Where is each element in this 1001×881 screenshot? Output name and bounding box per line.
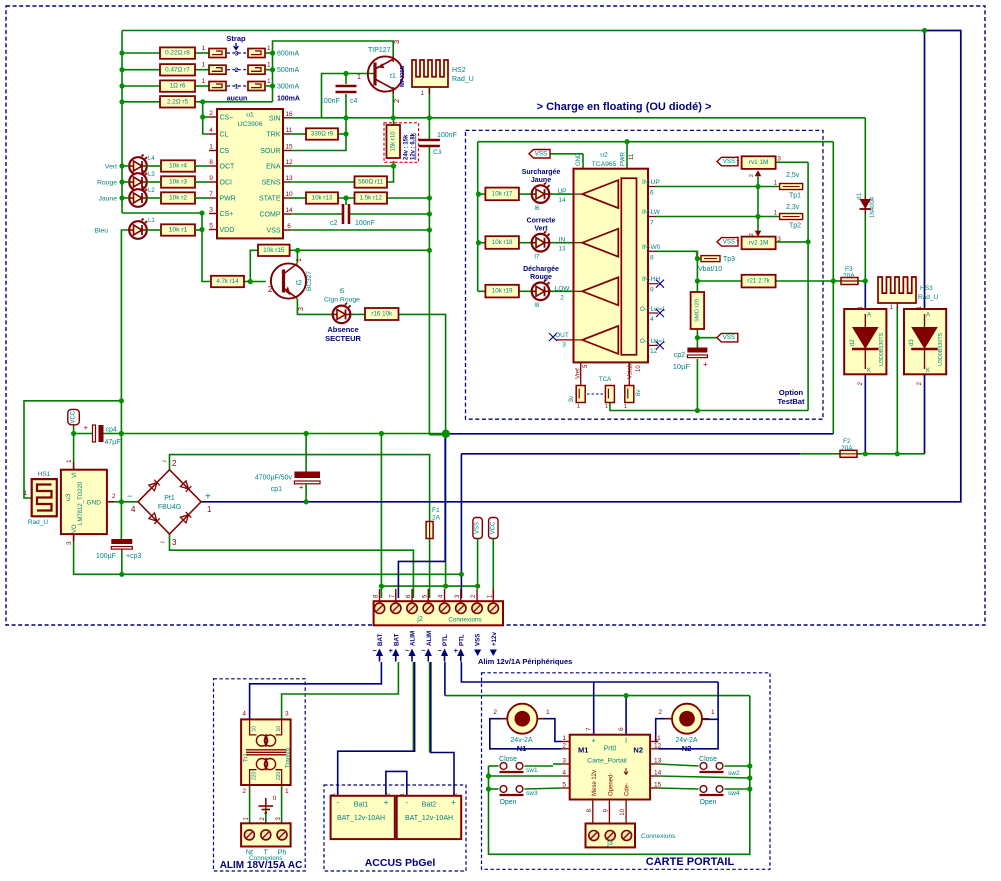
svg-text:1: 1 bbox=[605, 404, 608, 410]
resistor r11 560 ohm bbox=[355, 176, 388, 187]
svg-text:+: + bbox=[299, 483, 304, 492]
svg-text:Open: Open bbox=[499, 799, 516, 806]
svg-text:3: 3 bbox=[392, 40, 401, 44]
svg-text:PTL: PTL bbox=[458, 634, 465, 646]
svg-text:4: 4 bbox=[562, 770, 566, 777]
j2 screw terminal pin 4 bbox=[439, 603, 449, 613]
resistor r20 SMD vertical bbox=[691, 292, 705, 329]
svg-text:~: ~ bbox=[421, 648, 425, 655]
wire: TCA interior left vertical bbox=[477, 142, 479, 292]
wire: l5 to r16 bbox=[351, 313, 366, 315]
svg-text:Carte_Portail: Carte_Portail bbox=[587, 758, 627, 765]
svg-text:U3D0B530TS: U3D0B530TS bbox=[879, 332, 885, 366]
svg-text:3: 3 bbox=[285, 711, 289, 718]
svg-text:l7: l7 bbox=[534, 254, 539, 261]
svg-text:500mA: 500mA bbox=[277, 67, 300, 74]
svg-text:t2: t2 bbox=[296, 280, 302, 287]
svg-text:15: 15 bbox=[654, 782, 662, 789]
svg-text:14: 14 bbox=[285, 207, 293, 214]
svg-text:5: 5 bbox=[209, 223, 213, 230]
svg-text:330Ω r9: 330Ω r9 bbox=[311, 131, 334, 138]
svg-text:+cp3: +cp3 bbox=[126, 553, 141, 560]
svg-text:Prt0: Prt0 bbox=[604, 746, 617, 753]
svg-text:ACCUS PbGel: ACCUS PbGel bbox=[365, 857, 436, 869]
svg-text:7: 7 bbox=[209, 191, 213, 198]
wire: sw3 row bbox=[489, 788, 499, 790]
svg-text:cp1: cp1 bbox=[271, 486, 282, 493]
svg-text:L3: L3 bbox=[148, 172, 155, 178]
svg-text:1: 1 bbox=[267, 78, 271, 85]
svg-text:ALIM 18V/15A AC: ALIM 18V/15A AC bbox=[220, 860, 303, 871]
u2 inner comparator block bbox=[621, 178, 636, 355]
wire: rail to led anodes bbox=[122, 165, 129, 167]
wire: j2 pin6 column down to batteries bbox=[412, 662, 414, 751]
svg-text:VSS: VSS bbox=[475, 634, 482, 646]
resistor r8 0.22 ohm bbox=[160, 47, 195, 58]
svg-text:rv2 1M: rv2 1M bbox=[749, 239, 769, 246]
svg-text:24v-2A: 24v-2A bbox=[675, 737, 698, 744]
vcc vertical flag above j2 bbox=[489, 518, 498, 539]
u2 right pin stubs bbox=[648, 186, 656, 188]
wire: carte portail switch common loop bbox=[489, 696, 750, 855]
wire: r5 row to strap bus bbox=[122, 101, 160, 103]
wire: t1 collector stub bbox=[392, 91, 394, 118]
diode module d3 bbox=[904, 309, 946, 374]
svg-text:4: 4 bbox=[209, 127, 213, 134]
heatsink HS2 bbox=[412, 60, 448, 87]
resistor r19 bbox=[485, 285, 519, 298]
svg-text:Vbat/10: Vbat/10 bbox=[698, 266, 722, 273]
led l6 bbox=[532, 183, 550, 203]
main schematic dashed border frame bbox=[6, 6, 985, 625]
svg-text:4: 4 bbox=[650, 316, 654, 323]
led l8 bbox=[532, 280, 550, 300]
svg-text:9: 9 bbox=[209, 175, 213, 182]
svg-text:4700µF/50v: 4700µF/50v bbox=[255, 475, 293, 482]
wire: trafo bottom pins to j1 bbox=[249, 785, 251, 823]
svg-text:j2: j2 bbox=[416, 616, 423, 623]
big junction dot at ground rail crossing bbox=[442, 430, 450, 438]
svg-text:C3: C3 bbox=[433, 149, 442, 156]
resistor r15 10k bbox=[258, 245, 290, 256]
svg-text:+: + bbox=[592, 736, 597, 745]
wire: HS3 pin drop bbox=[896, 307, 898, 454]
wire: l1 row bbox=[147, 229, 161, 231]
vss flag at u2 gnd bbox=[529, 150, 550, 159]
svg-text:cp4: cp4 bbox=[106, 427, 117, 434]
svg-text:STATE: STATE bbox=[259, 196, 281, 203]
svg-text:10k r2: 10k r2 bbox=[169, 195, 187, 202]
wire: r19 row bbox=[478, 290, 486, 292]
wire: t2 collector stub bbox=[296, 250, 298, 263]
strap jumper row3 left bbox=[209, 49, 226, 58]
bus wire: BAT+ riser to j2 pin7 bbox=[398, 434, 445, 598]
resistor r9 330 ohm bbox=[306, 128, 338, 139]
led l2 Jaune bbox=[129, 187, 147, 207]
svg-text:Vert: Vert bbox=[534, 226, 548, 233]
svg-text:> Charge en floating (OU diodé: > Charge en floating (OU diodé) > bbox=[537, 101, 712, 113]
svg-text:Jaune: Jaune bbox=[98, 196, 117, 203]
svg-text:Bat1: Bat1 bbox=[354, 802, 369, 809]
svg-text:u3: u3 bbox=[65, 493, 72, 501]
svg-text:~: ~ bbox=[160, 538, 165, 547]
svg-text:10µF: 10µF bbox=[673, 362, 691, 371]
bus wire: N2 left to prt0 pin11 bbox=[656, 719, 672, 742]
potentiometer rv2 1M bbox=[742, 237, 776, 250]
svg-text:0.22Ω r8: 0.22Ω r8 bbox=[165, 50, 190, 57]
led l5 Clgn Rouge bbox=[333, 303, 351, 323]
svg-text:1: 1 bbox=[711, 709, 715, 716]
switch sw4 Open bbox=[700, 786, 724, 795]
svg-text:Absence: Absence bbox=[327, 325, 358, 334]
wire: u2 pin6 row to Tp1 bbox=[656, 186, 780, 188]
j2 screw terminal pin 6 bbox=[407, 603, 417, 613]
svg-text:3: 3 bbox=[235, 50, 239, 57]
svg-text:4: 4 bbox=[131, 505, 136, 514]
switch sw3 Open bbox=[500, 786, 524, 795]
wire: u2 pin8 IN-W0 to measure column bbox=[656, 251, 697, 292]
wire: SENS row to r11 bbox=[291, 181, 355, 183]
heatsink HS3 bbox=[878, 277, 916, 303]
svg-text:1: 1 bbox=[917, 305, 923, 309]
svg-text:10k r17: 10k r17 bbox=[492, 190, 513, 197]
svg-text:sw1: sw1 bbox=[526, 767, 538, 774]
svg-text:10k r19: 10k r19 bbox=[492, 288, 513, 295]
wire: prt0 pin4 row bbox=[489, 775, 562, 777]
resistor r3 bbox=[161, 176, 195, 187]
svg-text:100nF: 100nF bbox=[437, 132, 457, 139]
svg-text:O-+Lw=1: O-+Lw=1 bbox=[640, 306, 666, 313]
bus wire: j2 pin5 to Bat2 plus bbox=[431, 662, 454, 796]
wire: r17 row bbox=[478, 193, 486, 195]
bus wire: PTL+ column to j2 pin3 bbox=[460, 454, 462, 598]
svg-text:Tp2: Tp2 bbox=[789, 223, 801, 230]
svg-text:r16 10k: r16 10k bbox=[371, 311, 393, 318]
svg-text:OCI: OCI bbox=[220, 180, 233, 187]
j2 arrows up for wires bbox=[376, 649, 383, 662]
svg-text:−: − bbox=[373, 648, 377, 655]
svg-text:47µF: 47µF bbox=[105, 439, 121, 446]
wire: u2 pin7 row to Tp2 bbox=[656, 216, 780, 218]
wire: TestBat bottom rail y=410.5 bbox=[609, 410, 808, 412]
svg-text:1: 1 bbox=[421, 91, 425, 97]
j2 screw terminal pin 5 bbox=[423, 603, 433, 613]
module Prt0 Carte_Portail bbox=[570, 735, 650, 800]
wire: VSS pin row bbox=[291, 229, 429, 231]
svg-text:Pt1: Pt1 bbox=[164, 495, 175, 502]
strap jumper row1 left bbox=[209, 82, 226, 91]
svg-text:PWR: PWR bbox=[220, 196, 236, 203]
j2 screw terminal pin 2 bbox=[472, 603, 482, 613]
svg-text:TCA965: TCA965 bbox=[592, 161, 617, 168]
bus wire: j2 pin6 to Bat1 minus bbox=[338, 662, 415, 796]
svg-text:Tr1: Tr1 bbox=[244, 753, 250, 762]
svg-text:L1: L1 bbox=[148, 218, 155, 224]
svg-text:5: 5 bbox=[583, 364, 589, 368]
svg-text:Open: Open bbox=[699, 799, 716, 806]
strap jumper row2 right bbox=[248, 65, 265, 74]
svg-text:11: 11 bbox=[654, 735, 661, 742]
wire: TRK/SOUR link vertical bbox=[291, 118, 346, 151]
bus wire: d3 anode column bbox=[924, 31, 926, 310]
svg-text:rv1 1M: rv1 1M bbox=[749, 159, 769, 166]
svg-text:L2: L2 bbox=[148, 188, 155, 194]
svg-text:~: ~ bbox=[405, 648, 409, 655]
svg-text:ENA: ENA bbox=[266, 164, 281, 171]
resistor r10 15k vertical bbox=[387, 125, 401, 158]
svg-text:16: 16 bbox=[285, 111, 293, 118]
svg-text:d1: d1 bbox=[857, 192, 863, 199]
switch sw1 Close bbox=[500, 763, 524, 772]
svg-text:1: 1 bbox=[546, 709, 550, 716]
svg-text:13: 13 bbox=[285, 175, 293, 182]
svg-text:8: 8 bbox=[374, 594, 380, 598]
svg-text:Rouge: Rouge bbox=[530, 274, 552, 281]
svg-text:2: 2 bbox=[235, 67, 239, 74]
svg-text:2: 2 bbox=[749, 233, 755, 236]
svg-text:1Ω r6: 1Ω r6 bbox=[170, 83, 186, 90]
svg-text:VCC: VCC bbox=[490, 521, 496, 534]
svg-text:d3: d3 bbox=[909, 339, 915, 346]
svg-text:Strap: Strap bbox=[226, 34, 246, 43]
wire: earth stub bbox=[265, 798, 267, 823]
potentiometer rv1 1M bbox=[742, 156, 776, 169]
svg-text:Alim 12v/1A Périphériques: Alim 12v/1A Périphériques bbox=[478, 657, 572, 666]
svg-text:PWR: PWR bbox=[621, 151, 627, 166]
svg-text:1N4004: 1N4004 bbox=[870, 196, 876, 218]
svg-text:8: 8 bbox=[650, 255, 654, 262]
svg-text:l5: l5 bbox=[339, 288, 344, 295]
svg-text:1: 1 bbox=[736, 237, 740, 243]
resistor r14 4.7k bbox=[211, 276, 244, 287]
svg-text:N2: N2 bbox=[633, 746, 643, 755]
svg-text:11: 11 bbox=[629, 153, 635, 160]
svg-text:aucun: aucun bbox=[227, 96, 248, 103]
svg-text:COMP: COMP bbox=[260, 212, 281, 219]
bus wire: j2 pin8 to trafo pin4 bbox=[250, 662, 382, 719]
wire: sw4 row bbox=[658, 788, 698, 789]
battery Bat2 BAT_12v-10AH bbox=[397, 796, 462, 839]
wire: cp4 left link bbox=[74, 433, 94, 435]
resistor r13 10k bbox=[306, 192, 338, 203]
svg-text:LM7812_TO220: LM7812_TO220 bbox=[78, 481, 84, 525]
svg-text:Close: Close bbox=[699, 756, 717, 763]
svg-text:3: 3 bbox=[172, 538, 177, 547]
svg-text:BAT: BAT bbox=[377, 634, 384, 646]
svg-text:20A: 20A bbox=[843, 273, 855, 280]
diode d1 1N4004 bbox=[860, 196, 872, 214]
r10 selection red dashed box bbox=[384, 123, 419, 163]
svg-text:3: 3 bbox=[209, 207, 213, 214]
j2 screw terminal pin 7 bbox=[391, 603, 401, 613]
svg-text:2: 2 bbox=[260, 817, 266, 821]
resistor r1 bbox=[161, 224, 195, 235]
svg-text:IN-UP: IN-UP bbox=[642, 179, 660, 186]
svg-text:HS1: HS1 bbox=[38, 471, 51, 478]
svg-text:Rad_U: Rad_U bbox=[452, 76, 474, 83]
svg-text:VSS: VSS bbox=[266, 228, 280, 235]
svg-text:6: 6 bbox=[650, 190, 654, 197]
svg-text:+: + bbox=[454, 648, 458, 655]
svg-text:14: 14 bbox=[654, 770, 662, 777]
svg-text:2: 2 bbox=[242, 788, 246, 795]
svg-text:sw4: sw4 bbox=[728, 790, 740, 797]
bus wire: j2 pin4 PTL- drop bbox=[444, 662, 446, 696]
wire: strap row r8 bbox=[122, 52, 160, 54]
svg-text:1: 1 bbox=[66, 459, 73, 463]
svg-text:100nF: 100nF bbox=[320, 98, 340, 105]
Option TestBat dashed box bbox=[466, 130, 824, 419]
relay N2 24v-2A bbox=[665, 704, 709, 734]
svg-text:10: 10 bbox=[285, 191, 293, 198]
svg-text:220: 220 bbox=[252, 771, 258, 780]
svg-text:13: 13 bbox=[654, 758, 662, 765]
svg-text:2: 2 bbox=[658, 709, 662, 716]
resistor r5 2.2 ohm bbox=[160, 96, 195, 107]
wire: ENA row bbox=[291, 165, 394, 167]
svg-text:5: 5 bbox=[562, 782, 566, 789]
svg-text:UP: UP bbox=[557, 188, 566, 195]
svg-text:15k r10: 15k r10 bbox=[390, 131, 396, 152]
svg-text:2: 2 bbox=[917, 381, 923, 385]
svg-text:Connexions: Connexions bbox=[641, 833, 676, 840]
wire: c2 junction stub bbox=[345, 198, 347, 205]
svg-text:l6: l6 bbox=[534, 205, 539, 212]
svg-text:HS2: HS2 bbox=[452, 67, 466, 74]
svg-text:1: 1 bbox=[207, 505, 212, 514]
bus wire: N2 right feed bbox=[701, 682, 718, 719]
svg-text:1: 1 bbox=[736, 157, 740, 163]
wire: COMP row with c2 bbox=[291, 213, 342, 215]
svg-text:CS: CS bbox=[220, 148, 230, 155]
wire: ENA to r11 bbox=[387, 166, 394, 182]
wire: STATE row r13 r12 bbox=[291, 197, 306, 199]
svg-text:1: 1 bbox=[562, 735, 566, 742]
svg-text:VSS: VSS bbox=[475, 522, 481, 534]
svg-text:10k r3: 10k r3 bbox=[169, 179, 187, 186]
wire: pin8 column x=381.4 bbox=[380, 434, 382, 599]
svg-text:1: 1 bbox=[577, 404, 580, 410]
svg-text:-: - bbox=[336, 798, 339, 807]
svg-text:j3: j3 bbox=[606, 840, 613, 847]
wire: r16 right corner down x=445.6 bbox=[399, 314, 446, 586]
bus wire: d2 cathode stub bbox=[864, 374, 866, 454]
wire: strap row r6 bbox=[122, 85, 160, 87]
fuse F3 20A bbox=[841, 278, 858, 285]
bus wire: N1 left to prt0 pin2 bbox=[490, 719, 562, 749]
svg-text:BAT: BAT bbox=[393, 634, 400, 646]
svg-text:M1: M1 bbox=[578, 746, 588, 755]
svg-text:1: 1 bbox=[243, 817, 249, 821]
led l4 Vert bbox=[129, 155, 147, 175]
svg-text:MPJ05B: MPJ05B bbox=[400, 66, 406, 87]
switch sw2 Close bbox=[700, 763, 724, 772]
wire: corner of x=429.4 into VSS rail bbox=[429, 434, 445, 436]
wire: bridge AC2 to fuse F1 to j2 pin5 bbox=[170, 455, 430, 521]
connector j3 bbox=[586, 824, 636, 848]
svg-text:12: 12 bbox=[285, 159, 293, 166]
wire: strap row r7 bbox=[122, 69, 160, 71]
svg-text:2: 2 bbox=[749, 174, 755, 177]
wire: VSS flag link at measure column bbox=[697, 337, 716, 339]
fuse F2 20A bbox=[840, 450, 857, 457]
svg-text:SOUR: SOUR bbox=[260, 148, 280, 155]
svg-text:24v : 15k: 24v : 15k bbox=[404, 134, 410, 160]
bus wire: d3 cathode to F2 row bbox=[924, 374, 926, 454]
svg-text:Surchargée: Surchargée bbox=[522, 169, 561, 176]
vss flag rv2 bbox=[717, 238, 738, 247]
wire: r14 to base junction bbox=[244, 281, 250, 283]
svg-text:L4: L4 bbox=[148, 156, 155, 162]
svg-text:10: 10 bbox=[636, 365, 642, 372]
hs3 pin stub bbox=[896, 303, 898, 308]
svg-text:1: 1 bbox=[23, 490, 27, 497]
svg-text:3: 3 bbox=[66, 541, 73, 545]
wire: cp4 right link bbox=[102, 433, 121, 435]
wire: strap bus vertical and emitter feed bbox=[273, 41, 394, 102]
svg-text:N2: N2 bbox=[682, 744, 692, 753]
svg-text:Rad_U: Rad_U bbox=[28, 519, 49, 526]
svg-text:TCA: TCA bbox=[599, 376, 612, 383]
svg-text:1: 1 bbox=[890, 305, 894, 311]
svg-text:+: + bbox=[84, 423, 89, 432]
bus wire: N2 to prt0 pin12 bbox=[658, 719, 718, 749]
strap jumper row2 left bbox=[209, 65, 226, 74]
resistor r16 10k bbox=[365, 308, 399, 320]
wire: u2 GND pin to VSS flag bbox=[550, 153, 583, 155]
svg-text:10k r4: 10k r4 bbox=[169, 163, 187, 170]
svg-text:Correcte: Correcte bbox=[527, 218, 556, 225]
svg-text:+: + bbox=[389, 648, 393, 655]
capacitor cp4 47uF polarized bbox=[93, 425, 104, 442]
svg-text:CS−: CS− bbox=[220, 115, 234, 122]
j2 screw terminal pin 3 bbox=[456, 603, 466, 613]
svg-text:BAT_12v-10AH: BAT_12v-10AH bbox=[337, 815, 385, 822]
svg-text:c4: c4 bbox=[350, 98, 358, 105]
svg-text:U3D0B530TS: U3D0B530TS bbox=[938, 332, 944, 366]
capacitor cp1 4700uF polarized bbox=[294, 472, 320, 484]
testpoint Tp2 bbox=[780, 214, 803, 220]
testpoint Tp3 bbox=[701, 256, 720, 262]
svg-text:2.2Ω r5: 2.2Ω r5 bbox=[167, 98, 189, 105]
svg-text:Transfo: Transfo bbox=[286, 747, 292, 768]
prt0 right pin stubs and numbers bbox=[650, 741, 658, 743]
wire: VCC column to u3 VI bbox=[73, 425, 75, 470]
svg-text:OCT: OCT bbox=[220, 164, 236, 171]
capacitor c4 100nF bbox=[336, 86, 357, 92]
svg-text:2: 2 bbox=[493, 709, 497, 716]
svg-text:F1: F1 bbox=[432, 507, 440, 514]
svg-text:8: 8 bbox=[209, 159, 213, 166]
wire: u3 VO line y=574.3 bbox=[74, 534, 462, 574]
svg-text:1: 1 bbox=[774, 181, 778, 187]
svg-text:1: 1 bbox=[202, 62, 206, 69]
svg-text:300mA: 300mA bbox=[277, 84, 300, 91]
svg-text:1: 1 bbox=[331, 793, 337, 796]
svg-text:2,3v: 2,3v bbox=[786, 204, 800, 211]
svg-text:A: A bbox=[867, 313, 871, 319]
relay N1 24v-2A bbox=[500, 704, 544, 734]
wire: ground tie row y=586.1 bbox=[381, 585, 477, 587]
diode module d2 bbox=[844, 309, 886, 374]
wire: r15 row bbox=[290, 249, 430, 251]
j2 arrows down for peripheral supply bbox=[474, 650, 481, 657]
svg-text:2: 2 bbox=[209, 110, 213, 117]
svg-text:2A: 2A bbox=[432, 515, 441, 522]
svg-text:Mese 12v: Mese 12v bbox=[592, 770, 598, 796]
svg-text:VSS: VSS bbox=[723, 238, 735, 245]
svg-text:PTL: PTL bbox=[442, 634, 449, 646]
